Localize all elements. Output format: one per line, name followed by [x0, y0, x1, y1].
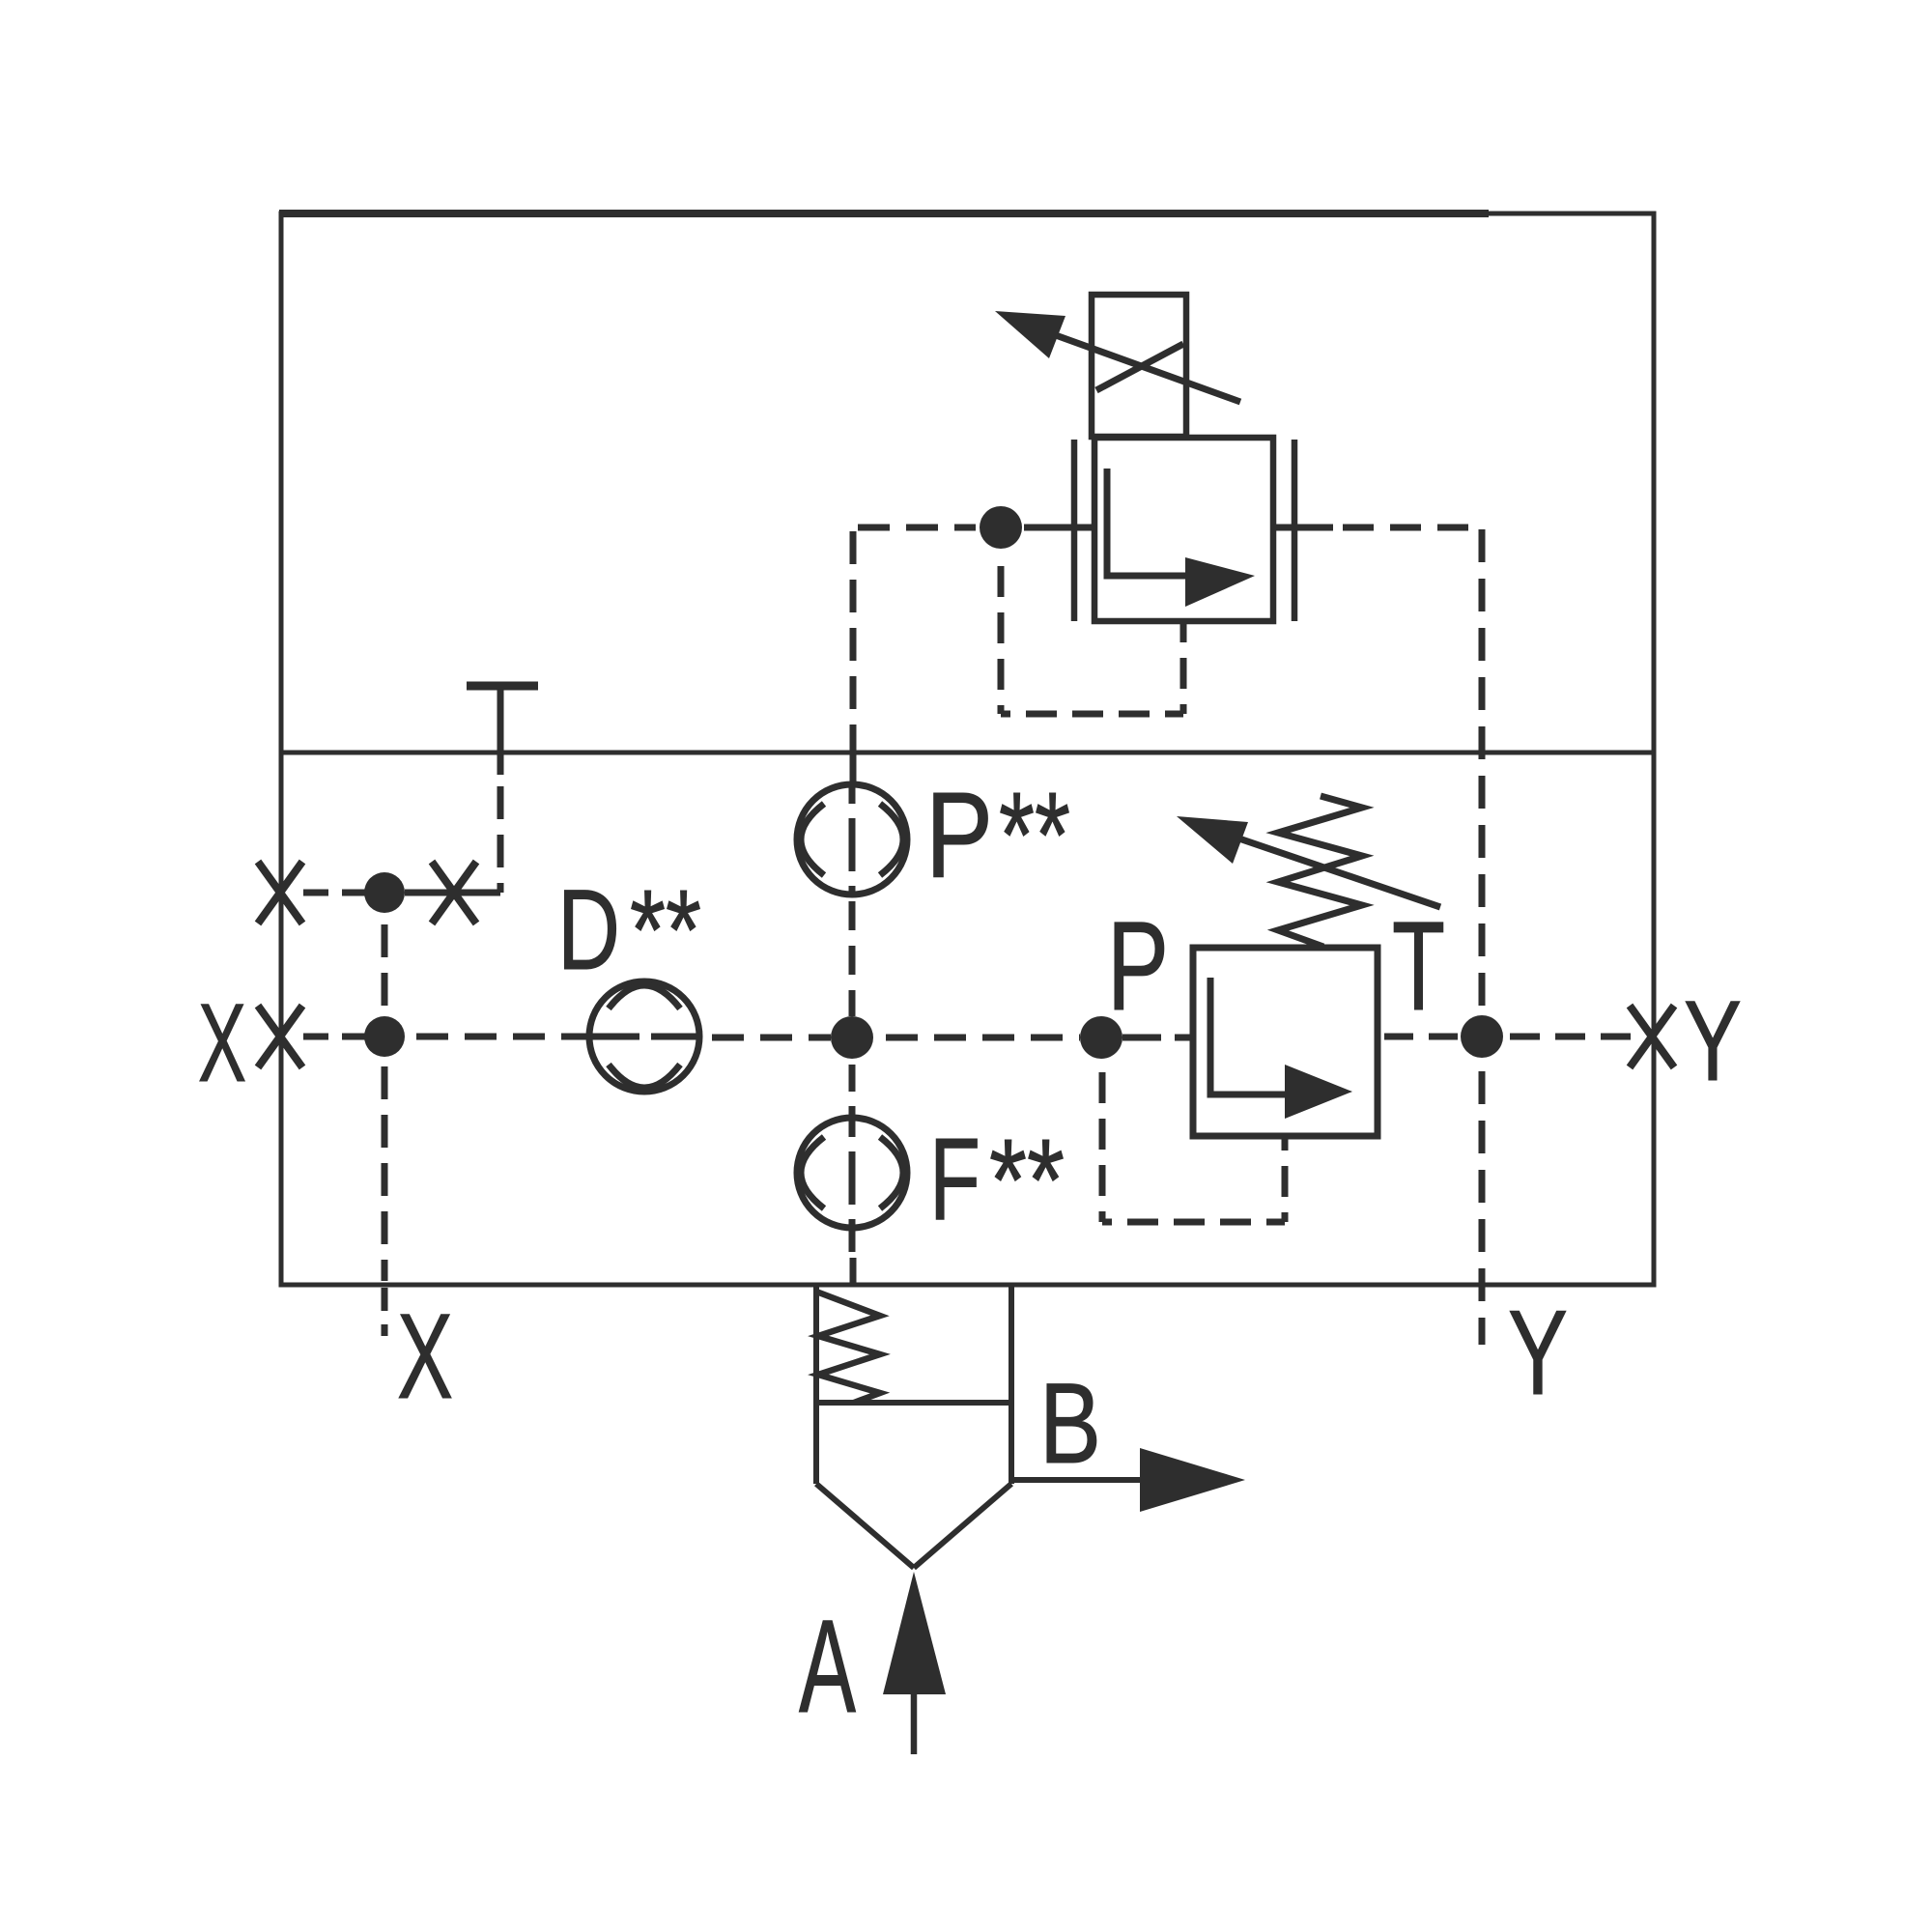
drain loop of pilot relief valve (dashed): [1001, 551, 1183, 714]
adjustable orifice insert (top, plugged): [1092, 295, 1186, 437]
logic cartridge closing spring: [816, 1292, 880, 1403]
X pilot line below node down to port X (bottom): [382, 1057, 388, 1281]
svg-text:A: A: [799, 1593, 856, 1741]
svg-text:Y: Y: [1508, 1287, 1568, 1420]
svg-text:**: **: [989, 1114, 1065, 1245]
svg-text:D: D: [557, 867, 620, 994]
port X plug symbol on left border (upper row): [258, 862, 302, 923]
pilot drain line from T symbol down to X row: [476, 775, 500, 893]
pilot relief valve body (top): [1074, 438, 1294, 621]
X pilot line from node to orifice D**: [405, 1034, 589, 1040]
line from node to plug symbol (upper row): [405, 890, 476, 896]
Y pilot line vertical (right, dashed): [1479, 527, 1486, 1345]
pilot line from orifice P** down to centre node: [849, 895, 856, 1016]
adjustment arrow across orifice insert: [995, 311, 1240, 402]
junction node Y: [1461, 1015, 1503, 1058]
junction node main row left: [364, 1016, 405, 1057]
pilot line corner down from node at x=883: [850, 529, 857, 727]
pressure relief valve body (middle): [1193, 948, 1378, 1136]
svg-text:F: F: [929, 1113, 980, 1244]
port A arrow into poppet: [883, 1572, 946, 1754]
orifice P**: [797, 784, 907, 895]
centre junction node: [831, 1016, 873, 1059]
port Y plug symbol on right border: [1630, 1006, 1674, 1067]
junction node at pilot relief valve inlet: [980, 506, 1022, 549]
X pilot line from border to node (main row): [303, 1034, 365, 1040]
pilot supply line from node to pilot relief valve P port: [853, 525, 1094, 531]
pilot relief valve flow path arrow: [1107, 469, 1255, 607]
Y line from node to right border: [1503, 1034, 1631, 1040]
line from node P to relief valve: [1122, 1035, 1193, 1041]
port X plug symbol on left border (main row): [258, 1006, 302, 1067]
junction node upper X row: [364, 872, 405, 913]
svg-text:B: B: [1039, 1360, 1101, 1488]
relief valve spring: [1278, 796, 1362, 947]
housing divider line between cover and element section: [281, 751, 1654, 755]
relief valve T line to Y node: [1378, 1034, 1461, 1040]
relief valve adjustment arrow: [1177, 816, 1440, 907]
solid pilot line segment crossing divider to orifice P**: [850, 727, 857, 786]
pilot line from centre node to P node: [873, 1035, 1080, 1041]
junction node P: [1080, 1016, 1122, 1059]
pilot line from centre node down to orifice F**: [849, 1059, 856, 1118]
svg-text:X: X: [397, 1290, 453, 1424]
pilot line upper X row (dashed): [303, 890, 365, 896]
relief valve drain loop (dashed): [1102, 1059, 1285, 1222]
svg-text:T: T: [1392, 895, 1445, 1037]
svg-text:P: P: [925, 767, 993, 903]
orifice D**: [589, 981, 699, 1092]
pilot line from orifice F** to main poppet spring chamber: [849, 1228, 856, 1252]
svg-text:X: X: [198, 981, 246, 1105]
tank drain symbol T (upper left): [467, 686, 538, 775]
valve block housing outline: [279, 213, 1654, 1285]
logic cartridge poppet seat V: [816, 1484, 1011, 1568]
plug symbol right of node (upper row): [432, 862, 476, 923]
port B line and arrow: [1011, 1448, 1245, 1512]
logic cartridge valve sleeve (bottom): [816, 1285, 1011, 1484]
relief valve flow path arrow: [1210, 978, 1352, 1119]
svg-text:**: **: [999, 767, 1070, 903]
pilot line from orifice D** to centre node: [699, 1035, 831, 1041]
svg-text:**: **: [630, 867, 701, 994]
svg-text:Y: Y: [1684, 978, 1742, 1105]
pilot line from upper node down to X/Y row: [382, 913, 388, 1016]
svg-text:P: P: [1107, 895, 1169, 1037]
pilot relief valve T port line to Y line: [1273, 525, 1333, 531]
orifice F**: [797, 1118, 907, 1228]
